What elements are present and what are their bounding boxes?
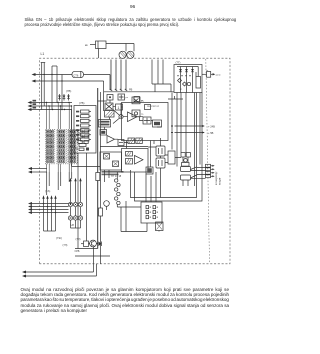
svg-text:pc: pc <box>73 132 75 134</box>
bold vertical wire <box>97 88 99 249</box>
transistor Q3 <box>90 240 97 247</box>
svg-text:(7Ж): (7Ж) <box>56 236 62 240</box>
X box below module <box>156 222 164 232</box>
svg-text:(7В): (7В) <box>66 89 71 93</box>
wires below contacts <box>183 157 188 186</box>
vertical wire x78 <box>77 153 79 249</box>
transformer cores <box>119 51 134 58</box>
+24V rail <box>171 125 215 129</box>
box RL <box>118 94 129 100</box>
svg-text:к генератору: к генератору <box>216 171 218 185</box>
lamp matrix U8 (6 lamps) <box>68 202 82 228</box>
vertical wire x71 <box>72 110 101 167</box>
resistor in 7G <box>196 77 201 89</box>
wire opamp out <box>137 117 143 121</box>
contact cluster top <box>181 153 190 167</box>
wires above 7G <box>152 60 183 100</box>
vertical wire x172 <box>171 93 173 150</box>
connector rotated labels <box>216 171 222 185</box>
diode drops row <box>58 94 70 101</box>
loop wire 1 <box>131 93 197 198</box>
bottom module box <box>141 202 162 223</box>
wire chain to box <box>117 206 141 208</box>
svg-text:на щит: на щит <box>219 177 221 185</box>
svg-text:ТP 17 18: ТP 17 18 <box>111 175 122 178</box>
vertical wire <box>56 66 58 103</box>
svg-text:PB: PB <box>129 89 133 92</box>
vertical wire <box>41 63 43 110</box>
page number <box>130 4 135 9</box>
vertical wire x86.5 <box>86 153 88 241</box>
7E-left caption smudge <box>102 171 124 175</box>
svg-text:pл: pл <box>126 97 129 99</box>
svg-text:OЛБ: OЛБ <box>75 250 80 253</box>
wire tick top <box>52 65 57 67</box>
vertical wire <box>43 63 45 107</box>
svg-text:(7Г): (7Г) <box>176 61 181 65</box>
regulator module box <box>122 103 169 141</box>
contact K2 <box>181 175 206 181</box>
wire ticks at bus <box>110 60 127 91</box>
svg-text:кв: кв <box>206 70 208 72</box>
diamonds in 7G <box>178 79 187 87</box>
tall rect <box>168 151 175 164</box>
7G circle <box>187 82 190 85</box>
caption line 2 <box>25 22 180 27</box>
wires Q1 Q2 <box>148 138 181 198</box>
svg-text:(7A): (7A) <box>45 189 50 193</box>
wire from fig.1 (top) with arrow <box>32 73 73 76</box>
module 7E-left box <box>100 152 122 170</box>
left wire with arrow (mid) <box>28 167 47 170</box>
resistor bank in 7B <box>76 110 91 151</box>
wire capsule to node <box>84 75 111 91</box>
unity box <box>116 104 123 110</box>
body paragraph <box>21 287 229 292</box>
connector outputs <box>206 164 215 177</box>
svg-text:кг: кг <box>180 89 182 91</box>
vertical wire x150.5 <box>150 141 152 168</box>
svg-text:реле: реле <box>216 74 222 76</box>
svg-text:(7Л): (7Л) <box>63 243 68 247</box>
loop wire 2 <box>135 93 203 202</box>
svg-text:кв: кв <box>85 44 88 47</box>
wire verticals into bottom box <box>146 172 156 202</box>
7G internal wires <box>181 67 199 93</box>
module 7G box <box>174 65 202 93</box>
main bus wires (4) with arrows <box>28 202 69 214</box>
transistor box Q2 <box>156 158 165 168</box>
vertical wire <box>100 92 102 264</box>
base box <box>81 241 89 247</box>
left bus wire 3 with arrow <box>28 100 73 104</box>
module 7B box <box>74 106 96 154</box>
module interconnect wires <box>98 100 162 149</box>
arrow out to relay <box>211 73 216 75</box>
box Gd <box>153 120 162 127</box>
vertical wire x177 <box>176 93 178 167</box>
thyristor ladder 7A <box>42 195 56 231</box>
svg-text:CT6: CT6 <box>73 73 78 77</box>
svg-text:+ 5B: + 5B <box>208 131 214 135</box>
svg-text:[7Б]: [7Б] <box>74 147 79 151</box>
small marks <box>118 140 124 146</box>
junction dots top <box>44 74 63 82</box>
svg-text:(7И): (7И) <box>76 237 81 241</box>
resistor R-up <box>96 173 100 181</box>
diodes in 7G <box>177 67 196 75</box>
small dark box <box>100 130 107 136</box>
svg-text:1: 1 <box>118 106 120 110</box>
vertical wire <box>51 66 53 110</box>
svg-text:+ 24B: + 24B <box>208 125 215 129</box>
diode D1 <box>99 242 102 247</box>
svg-text:(7Б): (7Б) <box>79 101 84 105</box>
connector pin array 7V (three striped ladders) <box>45 103 77 173</box>
wire from fig.1 (second) with arrow <box>32 80 104 112</box>
bottom wire 2 to fig.1 <box>22 264 97 278</box>
twisted pair chain <box>115 172 121 207</box>
svg-text:U8: U8 <box>71 223 75 227</box>
wire tick <box>41 62 46 64</box>
inner dashed partition <box>206 59 210 264</box>
contact K1 <box>181 167 206 172</box>
caption line 1 <box>25 17 237 22</box>
wires below arrays <box>47 172 72 195</box>
hatched boxes pair <box>128 138 142 144</box>
ladder arrows second group <box>69 178 81 203</box>
op-amp U2 <box>107 136 115 144</box>
transistor box Q1 <box>156 146 165 156</box>
small box in regulator <box>145 105 151 110</box>
feedback box <box>143 117 151 124</box>
op-amp U1 <box>128 112 138 122</box>
relay KV box <box>85 41 106 49</box>
svg-text:L1: L1 <box>41 52 45 56</box>
enclosure dashed border <box>40 58 231 264</box>
X box <box>105 103 113 110</box>
left bus wire 5 with arrow <box>28 107 73 111</box>
hatch box <box>105 111 115 118</box>
svg-text:РЕГУЛЯТОР: РЕГУЛЯТОР <box>147 106 160 108</box>
wires below 7G <box>181 93 200 187</box>
+5V rail <box>171 131 214 135</box>
module 7E-right box <box>122 149 149 173</box>
7D resistor cluster <box>73 130 88 144</box>
box RC <box>107 95 113 101</box>
bottom wire 1 to fig.1 <box>22 247 94 274</box>
vertical wire <box>61 75 63 110</box>
wires bottom cluster <box>75 244 110 257</box>
ticks in 7G <box>177 75 191 77</box>
resistor R-bus <box>99 208 103 216</box>
dark component box <box>146 167 153 174</box>
left bus wire 4 with arrow <box>28 103 73 107</box>
component circle right <box>104 201 110 210</box>
left wire with arrow (mid2) <box>28 171 47 174</box>
bus wire to 7G <box>104 91 174 93</box>
bottom module elements <box>146 206 158 219</box>
junction dots <box>46 102 72 110</box>
wire relay to transformer <box>99 44 135 59</box>
relay box right of 7G <box>202 70 211 77</box>
box KC <box>132 97 144 104</box>
capsule STB <box>72 71 84 77</box>
box KC2 <box>132 110 144 117</box>
summing node <box>113 110 128 124</box>
stub wires below 7E-left <box>105 170 110 182</box>
stabilizer block <box>99 120 111 128</box>
svg-text:кц: кц <box>141 114 144 116</box>
left frame wires <box>121 201 147 232</box>
box kv2 <box>134 97 144 103</box>
